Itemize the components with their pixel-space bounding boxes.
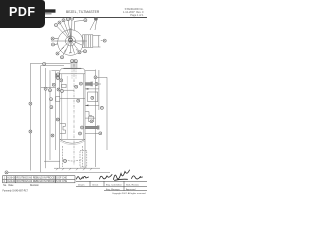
svg-text:Copyright 2007. All rights res: Copyright 2007. All rights reserved. [112, 192, 146, 195]
svg-text:Stds. Review: Stds. Review [126, 183, 139, 186]
svg-text:Formerly S-040-697-PLT: Formerly S-040-697-PLT [3, 189, 29, 192]
svg-text:ROUTINGS AS REBUILD IN PROCESS: ROUTINGS AS REBUILD IN PROCESS OF CHG [17, 180, 68, 183]
svg-text:6-26-06: 6-26-06 [7, 177, 16, 179]
svg-text:ROUTINGS AS REBUILD IN PROCESS: ROUTINGS AS REBUILD IN PROCESS OF CHG [17, 176, 68, 179]
svg-text:Approved: Approved [126, 188, 136, 191]
svg-text:8-24-04: 8-24-04 [7, 181, 16, 183]
svg-text:No.: No. [3, 185, 7, 187]
svg-text:Revision: Revision [30, 185, 40, 187]
svg-text:BEZEL, TILTMASTER: BEZEL, TILTMASTER [66, 10, 100, 14]
svg-text:Page 1 of 1: Page 1 of 1 [130, 13, 144, 17]
svg-text:Eng. Manager: Eng. Manager [106, 188, 120, 191]
svg-text:Eng. Committee: Eng. Committee [106, 183, 122, 186]
svg-text:1: 1 [4, 177, 6, 179]
svg-text:Check: Check [92, 184, 99, 186]
svg-text:Date: Date [9, 184, 15, 187]
svg-text:Drawn: Drawn [78, 183, 85, 186]
